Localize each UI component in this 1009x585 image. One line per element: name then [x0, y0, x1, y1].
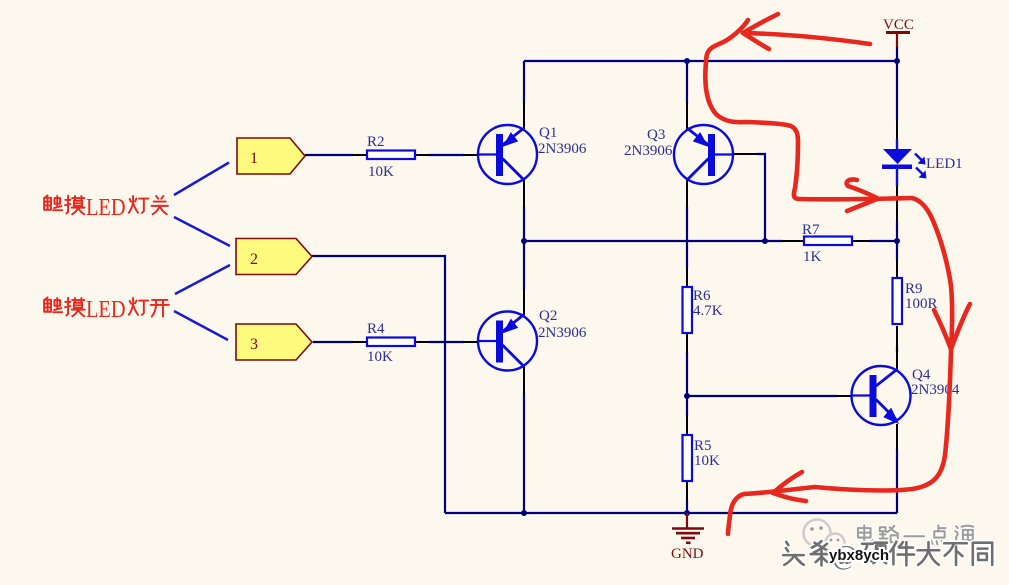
red down arrow barb left [934, 310, 951, 349]
svg-text:1K: 1K [803, 249, 822, 265]
wire R5 bottom to bottom rail [686, 500, 688, 513]
svg-text:2: 2 [250, 251, 258, 268]
svg-text:10K: 10K [367, 349, 393, 365]
pin LED cathode [896, 170, 898, 222]
VCC power symbol [886, 33, 910, 48]
svg-text:Q2: Q2 [539, 308, 557, 324]
wire R4 to Q2 base [429, 341, 464, 343]
wire connector1 to R2 [305, 154, 353, 156]
wire R9 bottom to Q4 collector (short) [896, 346, 898, 352]
junction top-VCC [894, 58, 900, 64]
junction R6/R5/Q4base [684, 393, 690, 399]
wire Q4 emitter to bottom rail [896, 449, 898, 513]
pin R2 right [415, 154, 430, 156]
pin R6 bottom [686, 333, 688, 353]
junction mid-Q1Q2 [521, 238, 527, 244]
leader text2 to connector3 [174, 311, 228, 340]
svg-text:LED: LED [86, 297, 126, 323]
wire VCC stub to LED [896, 46, 898, 121]
pin R2 left [352, 154, 367, 156]
red stroke top arrow shaft [743, 33, 870, 44]
svg-text:2N3904: 2N3904 [911, 382, 960, 398]
red note text: 触摸LED灯关 [44, 195, 168, 221]
svg-text:R5: R5 [694, 438, 712, 454]
transistor Q1 2N3906 PNP [478, 125, 537, 184]
wire bottom rail [445, 512, 897, 514]
pin Q3 collector bottom [686, 180, 688, 207]
pin Q1 base [463, 154, 478, 156]
pin R4 right [415, 341, 430, 343]
svg-text:R4: R4 [367, 321, 385, 337]
wire R7 right to LED column [869, 240, 897, 242]
junction bottom-GND [684, 510, 690, 516]
svg-text:LED: LED [86, 195, 126, 221]
red note text: 触摸LED灯开 [44, 297, 169, 323]
pin Q2 collector bottom [523, 366, 525, 393]
wire top rail [524, 60, 897, 62]
red stroke top arrow barb upper [743, 14, 778, 33]
resistor R7 body [804, 237, 852, 246]
resistor R9 body [893, 278, 903, 324]
wire R2 to Q1 base [429, 154, 464, 156]
wire Q4 base from R6/R5 node [687, 395, 837, 397]
pin R7 left [782, 240, 804, 242]
wire connector2 elbow down to bottom rail [312, 256, 445, 513]
svg-text:2N3906: 2N3906 [538, 141, 587, 157]
pin R5 top [686, 415, 688, 435]
wire LED to node R7-right [896, 221, 898, 260]
pin Q2 emitter top [523, 289, 525, 315]
svg-text:3: 3 [250, 336, 258, 353]
resistor R2 body [367, 151, 415, 160]
resistor R4 body [367, 338, 415, 347]
pin Q3 base [733, 153, 758, 155]
transistor Q3 2N3906 PNP mirrored [674, 125, 733, 184]
svg-text:R9: R9 [905, 281, 923, 297]
pin Q1 collector bottom [523, 180, 525, 207]
wire Q3 top pin column [686, 61, 688, 103]
pin Q4 base [836, 395, 851, 397]
watermark text: 电路一点通 (light gray) [858, 525, 974, 544]
transistor Q2 2N3906 PNP [478, 312, 537, 371]
connector 3 [236, 324, 312, 360]
junction mid-Q3base [762, 238, 768, 244]
leader text2 to connector2 [175, 265, 230, 294]
annotation leader lines [174, 163, 230, 341]
connector 2 [236, 239, 312, 275]
pin R7 right [850, 240, 870, 242]
svg-text:GND: GND [671, 546, 704, 562]
transistor Q4 2N3904 NPN [852, 366, 911, 425]
pin Q3 emitter top [686, 102, 688, 129]
svg-text:Q4: Q4 [912, 367, 931, 383]
pin R9 top [896, 259, 898, 278]
red stroke long snake [705, 20, 952, 534]
wire Q3 base elbow down to mid rail [757, 154, 765, 241]
wire Q3 collector to R6 [686, 206, 688, 268]
pin R4 left [352, 341, 367, 343]
svg-text:Q1: Q1 [539, 125, 557, 141]
svg-text:2N3906: 2N3906 [624, 143, 673, 159]
watermark text: 头条@硬件大不同 (dark gray) [783, 540, 992, 570]
wire Q2 collector down to bottom rail [523, 392, 525, 513]
red stroke top arrow barb lower [743, 33, 769, 49]
svg-text:4.7K: 4.7K [693, 303, 723, 319]
pin R9 bottom to Q4 collector [896, 326, 898, 371]
red mid arrow barb lower [847, 199, 877, 211]
red bottom arrow barb lower [773, 493, 806, 501]
wire mid rail y241 [524, 240, 783, 242]
resistor R5 body [683, 435, 693, 481]
wire connector3 to R4 [313, 341, 353, 343]
leader text1 to connector2 [174, 217, 230, 246]
svg-text:R2: R2 [367, 134, 385, 150]
ground symbol [672, 513, 704, 543]
leader text1 to connector1 [174, 163, 229, 196]
svg-text:10K: 10K [368, 164, 394, 180]
svg-text:LED1: LED1 [926, 156, 963, 172]
junction top-Q3 [684, 58, 690, 64]
wire Q1 collector to mid node [523, 206, 525, 290]
junction mid-LED/R9 [894, 238, 900, 244]
LED1 symbol [882, 139, 927, 186]
connector 1 [237, 138, 305, 174]
svg-text:Q3: Q3 [647, 127, 665, 143]
svg-text:VCC: VCC [883, 17, 914, 33]
svg-text:10K: 10K [694, 453, 720, 469]
red down arrow barb right [951, 304, 970, 349]
pin LED anode [896, 120, 898, 140]
watermark wechat icon [804, 520, 845, 553]
svg-text:R7: R7 [802, 222, 820, 238]
svg-text:R6: R6 [693, 288, 711, 304]
pin R6 top [686, 267, 688, 287]
pin Q1 emitter top [523, 102, 525, 129]
wire R6 bottom to R5 top [686, 352, 688, 416]
red bottom arrow barb upper [773, 472, 802, 493]
svg-text:2N3906: 2N3906 [538, 325, 587, 341]
pin Q2 base [463, 341, 478, 343]
svg-text:ybx8ych: ybx8ych [829, 547, 889, 564]
pin R5 bottom [686, 481, 688, 501]
resistor R6 body [683, 287, 693, 333]
red mid arrow barb upper with hook [847, 179, 877, 198]
svg-text:1: 1 [250, 150, 258, 167]
hand-drawn red annotation [705, 14, 970, 534]
wire Q1 top to rail [523, 61, 525, 103]
pin Q4 emitter bottom [896, 424, 898, 450]
junction bottom-Q2 [521, 510, 527, 516]
